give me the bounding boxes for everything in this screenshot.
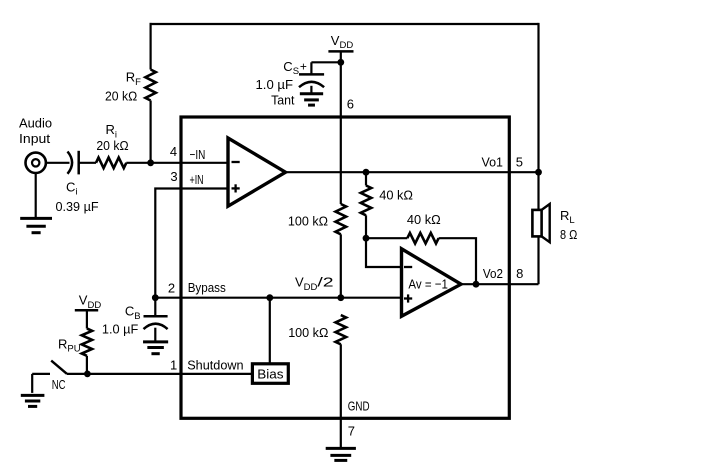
label 1.0 µF (CS)	[256, 77, 294, 92]
svg-text:Bias: Bias	[257, 366, 284, 381]
wire: speaker to Vo2 pin 8	[537, 236, 539, 284]
node: VDD junction	[337, 59, 344, 66]
op-amp A1	[228, 138, 286, 206]
label CS and +	[283, 59, 307, 77]
svg-text:1: 1	[170, 358, 177, 373]
label 1.0 µF (CB)	[102, 321, 138, 336]
pin 1 label	[170, 358, 177, 373]
node: Vo2 junction	[473, 281, 480, 288]
resistor 40k horizontal	[407, 233, 438, 244]
resistor RF	[145, 70, 155, 101]
svg-text:40 kΩ: 40 kΩ	[379, 187, 413, 202]
label 40 kΩ (horizontal)	[407, 212, 441, 227]
svg-text:−IN: −IN	[190, 147, 206, 162]
wire: feedback node to A2 minus	[366, 238, 402, 267]
resistor 100k lower	[336, 315, 347, 344]
svg-text:+: +	[300, 59, 307, 73]
wire: 40k vertical to feedback node	[365, 215, 367, 238]
node: VDD/2 divider junction	[337, 294, 344, 301]
capacitor CB	[144, 298, 168, 342]
wire: RF upper lead	[150, 23, 152, 70]
wire: A2 output Vo2 row	[461, 283, 539, 285]
ground (CS)	[300, 94, 323, 105]
wire: jack ground drop	[35, 173, 37, 218]
node: 40k top junction	[363, 169, 370, 176]
wire: 40k horizontal to Vo2	[439, 238, 476, 284]
svg-text:8 Ω: 8 Ω	[560, 227, 578, 242]
label RF	[126, 70, 141, 88]
pin 5 label	[516, 154, 523, 169]
svg-text:Vo1: Vo1	[482, 154, 504, 169]
label GND	[348, 399, 370, 414]
svg-text:2: 2	[168, 280, 175, 295]
wire: +IN stub to bypass node	[155, 189, 228, 298]
svg-text:1.0 µF: 1.0 µF	[256, 77, 294, 92]
wire: RPU to shutdown node	[86, 356, 88, 374]
switch S1 lever	[51, 361, 67, 374]
node: Vo1 pin 5 junction	[535, 169, 542, 176]
label Ri	[106, 122, 118, 140]
node: A2 feedback junction	[363, 235, 370, 242]
ground (audio input)	[20, 218, 52, 232]
label NC	[52, 377, 66, 392]
label Bypass	[188, 280, 227, 295]
wire: 100k upper to VDD/2 node	[340, 234, 342, 297]
svg-text:20 kΩ: 20 kΩ	[105, 89, 137, 104]
svg-text:Bypass: Bypass	[188, 280, 227, 295]
pin 6	[347, 96, 354, 111]
bias block	[252, 364, 288, 384]
pin 2 label	[168, 280, 175, 295]
wire: bypass row	[155, 297, 401, 299]
label 100 kΩ (lower)	[288, 325, 328, 340]
IC box U1	[181, 117, 509, 418]
label 8 Ω	[560, 227, 578, 242]
resistor Ri	[96, 158, 126, 169]
wire: VDD to RPU	[86, 310, 88, 328]
op-amp A2	[402, 249, 462, 316]
wire: Ri to -IN pin 4	[126, 162, 228, 164]
svg-text:5: 5	[516, 154, 523, 169]
node: bias junction	[266, 294, 273, 301]
node: input junction	[147, 159, 154, 166]
pin 7 label	[348, 424, 355, 439]
wire: RF lower lead	[150, 101, 152, 163]
wire: feedback right drop	[537, 23, 539, 172]
label 20 kΩ (RF)	[105, 89, 137, 104]
node: bypass junction	[152, 294, 159, 301]
ground (CB)	[143, 342, 168, 354]
audio input jack J1	[26, 153, 46, 173]
wire: feedback node to 40k horizontal	[366, 237, 407, 239]
label Tant	[271, 93, 295, 108]
pin 4 label	[170, 144, 177, 159]
svg-text:100 kΩ: 100 kΩ	[288, 325, 328, 340]
svg-text:40 kΩ: 40 kΩ	[407, 212, 441, 227]
label RPU	[58, 337, 81, 355]
wire: shutdown row	[67, 373, 252, 375]
wire: A1 output Vo1 row	[286, 171, 539, 173]
svg-text:20 kΩ: 20 kΩ	[96, 138, 128, 153]
label -IN	[190, 147, 206, 162]
svg-text:Vo2: Vo2	[483, 266, 503, 281]
wire: jack to Ci	[46, 162, 70, 164]
resistor 40k vertical	[361, 186, 372, 216]
label Shutdown	[187, 358, 243, 373]
wire: VDD node to CS	[311, 61, 340, 63]
capacitor CS	[299, 62, 324, 94]
label Vo1	[482, 154, 504, 169]
switch S1 fixed contact	[32, 374, 50, 393]
resistor RPU	[82, 329, 92, 356]
svg-text:100 kΩ: 100 kΩ	[288, 213, 328, 228]
svg-text:Input: Input	[19, 131, 51, 146]
power VDD (pull-up)	[75, 293, 102, 311]
label Ci	[66, 180, 78, 198]
svg-text:0.39 µF: 0.39 µF	[56, 199, 99, 214]
label CB	[125, 304, 141, 322]
svg-text:7: 7	[348, 424, 355, 439]
svg-text:6: 6	[347, 96, 354, 111]
capacitor Ci	[68, 151, 79, 175]
power VDD (supply rail)	[328, 33, 353, 52]
wire: Ci to Ri	[79, 162, 96, 164]
ground (pin 7)	[326, 448, 356, 460]
wire: Vo1 to 40k upper	[365, 172, 367, 185]
label 20 kΩ (Ri)	[96, 138, 128, 153]
svg-text:Av = −1: Av = −1	[408, 277, 448, 292]
speaker RL	[532, 204, 549, 242]
label 40 kΩ (vertical)	[379, 187, 413, 202]
resistor 100k upper	[336, 204, 347, 234]
svg-text:NC: NC	[52, 377, 66, 392]
svg-text:GND: GND	[348, 399, 370, 414]
svg-text:8: 8	[516, 266, 523, 281]
svg-text:+IN: +IN	[190, 172, 204, 187]
label Audio Input	[19, 115, 52, 146]
label RL	[560, 208, 575, 226]
label 0.39 µF	[56, 199, 99, 214]
pin 3 label	[170, 169, 177, 184]
svg-text:Shutdown: Shutdown	[187, 358, 243, 373]
label +IN	[190, 172, 204, 187]
label 100 kΩ (upper)	[288, 213, 328, 228]
wire: bias to bypass	[269, 298, 271, 364]
wire: VDD into pin 6 and divider	[340, 62, 342, 204]
pin 8 label	[516, 266, 523, 281]
wire: Vo1 node to speaker	[537, 172, 539, 210]
svg-text:3: 3	[170, 169, 177, 184]
svg-text:Tant: Tant	[271, 93, 295, 108]
node: shutdown junction	[84, 371, 91, 378]
label Vo2	[483, 266, 503, 281]
label Av = -1	[408, 277, 448, 292]
svg-text:1.0 µF: 1.0 µF	[102, 321, 138, 336]
wire: 100k lower to GND pin 7	[340, 344, 342, 448]
svg-text:4: 4	[170, 144, 177, 159]
wire: feedback top run	[150, 23, 539, 25]
ground (switch)	[21, 395, 45, 406]
label VDD/2	[295, 275, 334, 293]
wire: VDD bar to node	[340, 51, 342, 62]
svg-text:Audio: Audio	[19, 115, 52, 130]
